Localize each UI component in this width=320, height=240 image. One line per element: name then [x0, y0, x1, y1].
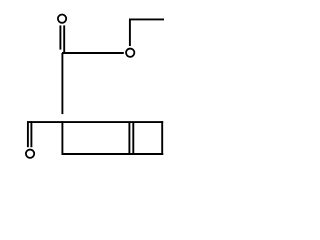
wire C=O double bond ester, left line	[59, 25, 61, 49]
wire ring bottom edge	[62, 153, 164, 155]
wire bond C-O ester horizontal	[62, 52, 124, 54]
wire ring right edge	[161, 121, 163, 155]
wire ring left edge	[61, 121, 63, 155]
wire ring inner double bond, right line	[132, 122, 134, 154]
wire bond O-CH2 vertical	[129, 19, 131, 46]
wire C=O double bond ester, right line	[63, 25, 65, 53]
wire ring top edge	[27, 121, 163, 123]
wire ring inner double bond, left line	[128, 122, 130, 154]
node O ester carbonyl oxygen label	[58, 15, 66, 23]
wire aldehyde C=O double bond, right line	[30, 121, 32, 147]
node O ester oxygen label	[126, 49, 134, 57]
wire bond CH2-CH3 horizontal	[129, 18, 164, 20]
node O aldehyde oxygen label	[26, 150, 34, 158]
wire aldehyde C=O double bond, left line	[27, 121, 29, 147]
wire bond ester C to ring vertical	[61, 53, 63, 114]
